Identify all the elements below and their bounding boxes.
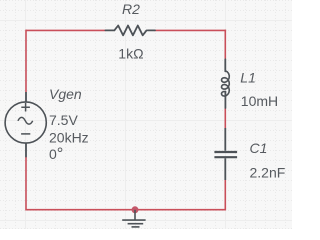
wire right vertical from top corner to L1 top pin: [224, 30, 226, 60]
junction node dot on bottom wire: [132, 206, 139, 213]
svg-text:C1: C1: [250, 140, 268, 156]
ground: [122, 210, 145, 227]
wire top-left horizontal from corner to R2 left pin: [26, 29, 106, 31]
inductor L1: [222, 59, 230, 108]
svg-text:7.5V: 7.5V: [49, 112, 78, 128]
wire bottom horizontal: [26, 209, 225, 211]
capacitor C1: [214, 128, 237, 180]
svg-text:10mH: 10mH: [241, 93, 278, 109]
wire right vertical from C1 bottom pin to bottom corner: [224, 180, 226, 211]
svg-text:1kΩ: 1kΩ: [118, 46, 143, 62]
svg-text:0°: 0°: [49, 145, 63, 163]
resistor R2: [105, 26, 155, 36]
svg-text:2.2nF: 2.2nF: [250, 165, 286, 181]
wire left vertical from Vgen bottom pin to bottom corner: [25, 157, 27, 211]
svg-text:20kHz: 20kHz: [49, 130, 89, 146]
svg-text:R2: R2: [122, 1, 140, 17]
wire left vertical from top corner to Vgen top pin: [25, 30, 27, 92]
svg-text:Vgen: Vgen: [49, 86, 82, 102]
wire top-right horizontal from R2 right pin to corner: [155, 29, 226, 31]
wire right vertical between L1 and C1: [224, 108, 226, 128]
ac voltage source Vgen: [5, 92, 46, 157]
svg-text:L1: L1: [240, 69, 256, 85]
